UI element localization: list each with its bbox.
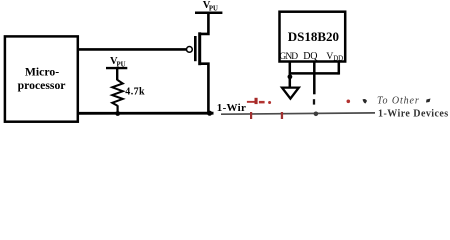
transistor Q1: gate plate bbox=[194, 36, 197, 61]
svg-text:1-Wir: 1-Wir bbox=[217, 102, 246, 114]
red watermark: tick on bus line left bbox=[250, 112, 252, 119]
node: resistor / bus junction bbox=[115, 111, 120, 116]
transistor Q1: gate bubble bbox=[187, 47, 193, 53]
svg-text:V: V bbox=[326, 51, 333, 62]
power VPU bar (pull-up resistor) bbox=[106, 67, 127, 69]
red watermark: dash bbox=[259, 101, 265, 104]
microprocessor U1 box bbox=[5, 36, 78, 121]
svg-text:DD: DD bbox=[333, 55, 343, 63]
pin DQ wire lower dash bbox=[313, 99, 315, 104]
red watermark: horizontal thin stroke bbox=[247, 101, 255, 103]
power VPU bar (MOSFET source) bbox=[195, 12, 222, 15]
red watermark: dot near To Other bbox=[347, 100, 351, 104]
svg-text:To Other: To Other bbox=[377, 95, 420, 106]
svg-text:GND: GND bbox=[279, 52, 298, 62]
red watermark: vertical stroke bbox=[255, 98, 258, 104]
artifact mark after To Other bbox=[426, 99, 431, 103]
node: GND / VDD junction bbox=[288, 74, 293, 79]
svg-text:PU: PU bbox=[209, 5, 218, 12]
transistor Q1 P-channel MOSFET: source wire bbox=[200, 13, 209, 34]
wire: resistor bottom to bus bbox=[116, 105, 118, 113]
wire: VDD to GND strap bbox=[290, 72, 339, 75]
svg-text:processor: processor bbox=[18, 79, 66, 92]
red watermark: tick on bus line right bbox=[281, 112, 283, 119]
wire: microprocessor to MOSFET gate bbox=[78, 48, 186, 51]
pin GND wire bbox=[289, 62, 292, 87]
node: MOSFET drain / bus junction bbox=[207, 111, 212, 116]
svg-text:Micro-: Micro- bbox=[25, 66, 59, 79]
IC U2 DS18B20 box bbox=[280, 12, 346, 62]
pin DQ wire bbox=[313, 62, 316, 94]
svg-text:DS18B20: DS18B20 bbox=[288, 29, 339, 44]
transistor Q1: channel bar bbox=[198, 32, 201, 65]
red watermark: small dot bbox=[268, 101, 271, 104]
resistor R1 zigzag bbox=[112, 80, 123, 106]
transistor Q1: drain wire down to bus bbox=[200, 64, 209, 113]
ground symbol bbox=[282, 88, 299, 99]
svg-text:1-Wire Devices: 1-Wire Devices bbox=[378, 108, 449, 119]
svg-text:4.7k: 4.7k bbox=[125, 87, 145, 98]
artifact mark before To Other bbox=[363, 99, 368, 104]
wire: microprocessor to 1-wire bus (thick segment) bbox=[78, 112, 214, 115]
wire: 1-wire bus thin segment to other devices bbox=[221, 113, 375, 114]
wire: VPU bar to resistor top bbox=[116, 68, 118, 80]
node: DQ / bus junction bbox=[314, 112, 319, 117]
svg-text:DQ: DQ bbox=[303, 51, 318, 62]
pin VDD wire bbox=[338, 62, 341, 74]
